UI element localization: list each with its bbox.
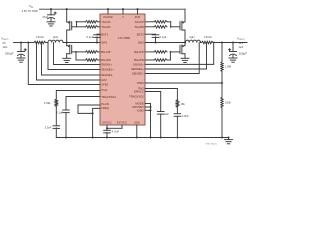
- capacitor CVCC 4.7uF: [104, 130, 120, 138]
- svg-text:RUN: RUN: [135, 16, 141, 19]
- resistor RBG2DN gate: [145, 59, 167, 62]
- wire ITH2: [145, 89, 177, 100]
- svg-text:SNSA2+: SNSA2+: [133, 63, 144, 67]
- svg-text:SW2: SW2: [138, 41, 145, 45]
- svg-text:1µF: 1µF: [164, 112, 169, 116]
- wire SW1 node: [63, 42, 100, 44]
- node VOUT2 dots: [221, 41, 234, 43]
- svg-text:LTC7890: LTC7890: [118, 36, 130, 40]
- node VOUT1 dots: [20, 41, 29, 43]
- node VOUT2 label: [237, 37, 245, 50]
- wire sense loop R2b: [145, 43, 207, 70]
- wire PLLIN route: [78, 105, 100, 113]
- wire sense loop R2c: [145, 43, 199, 74]
- svg-text:15k: 15k: [180, 102, 185, 106]
- svg-text:VIN: VIN: [29, 4, 34, 9]
- capacitor CDRV 1uF: [157, 112, 169, 138]
- wire SW2 node: [145, 42, 186, 44]
- capacitor CITH2 3.3nF: [174, 114, 189, 138]
- svg-text:SNSA1+: SNSA1+: [101, 63, 112, 67]
- svg-text:ILIM: ILIM: [101, 78, 107, 82]
- wire sense loop L1a: [36, 42, 100, 65]
- wire VFB2 route: [145, 82, 222, 84]
- node VIN input label: [22, 4, 39, 13]
- wire sense loop R2a: [145, 42, 215, 65]
- wire VIN top rail: [40, 8, 186, 10]
- svg-text:FREQ: FREQ: [101, 106, 110, 110]
- wire VFB1 route: [28, 43, 100, 85]
- note schematic id: [205, 143, 217, 146]
- U1 right pin labels: [129, 20, 144, 113]
- svg-text:4.53k: 4.53k: [44, 101, 51, 105]
- svg-text:4.5V TO 150V: 4.5V TO 150V: [22, 9, 39, 13]
- wire M2 source to ground: [66, 54, 68, 59]
- resistor RTG1UP gate: [86, 21, 101, 24]
- svg-text:7890 TA01a: 7890 TA01a: [205, 143, 217, 146]
- svg-text:100µF: 100µF: [239, 51, 248, 55]
- svg-text:2µH: 2µH: [53, 35, 58, 39]
- U1 left pin labels: [101, 20, 116, 110]
- svg-text:BST2: BST2: [137, 32, 144, 36]
- resistor RS1 1.5mOhm: [28, 35, 48, 44]
- svg-text:DRVCC: DRVCC: [134, 90, 144, 94]
- node SW1 dots: [66, 41, 98, 43]
- node SW2 dots: [154, 41, 186, 43]
- svg-text:VFB1: VFB1: [101, 83, 108, 87]
- svg-text:PGOOD: PGOOD: [103, 16, 113, 19]
- svg-text:5V: 5V: [3, 41, 6, 45]
- svg-text:SENSE2-: SENSE2-: [132, 72, 144, 76]
- svg-text:BG1UP: BG1UP: [101, 50, 111, 54]
- node bottom rail dots: [65, 136, 223, 138]
- wire DRVCC cap route: [145, 92, 161, 112]
- ground under M2: [63, 58, 71, 62]
- U1 bottom pin labels: [102, 122, 139, 125]
- svg-text:SENSE1+: SENSE1+: [101, 68, 114, 72]
- svg-text:12A: 12A: [3, 45, 8, 49]
- wire sense loop L1c: [42, 43, 101, 76]
- svg-text:1.5mΩ: 1.5mΩ: [203, 35, 211, 39]
- resistor RBG2UP gate: [145, 51, 167, 54]
- svg-text:4.7µF: 4.7µF: [112, 130, 120, 134]
- svg-text:VOUT2: VOUT2: [237, 37, 245, 42]
- svg-text:BG2UP: BG2UP: [134, 50, 144, 54]
- svg-text:GND: GND: [134, 122, 140, 125]
- svg-text:TRACKSS1: TRACKSS1: [101, 95, 116, 99]
- svg-text:330µF: 330µF: [5, 51, 14, 55]
- U1 top pin labels: [103, 16, 140, 19]
- svg-text:SENSE1-: SENSE1-: [101, 73, 113, 77]
- op-amp U1 LTC7890 controller IC body: [100, 14, 145, 125]
- ground at rail end: [225, 136, 233, 143]
- wire sense loop L1d: [37, 43, 101, 81]
- svg-text:TG1UP: TG1UP: [101, 20, 110, 24]
- wire RITH1 to CITH1: [55, 107, 57, 126]
- resistor RBG1DN gate: [86, 59, 101, 62]
- node VOUT1 label: [1, 37, 9, 50]
- resistor RTG1DN gate: [86, 26, 101, 29]
- svg-text:EXTVCC: EXTVCC: [117, 122, 127, 125]
- wire M1 gate split: [72, 21, 86, 27]
- svg-text:100k: 100k: [225, 101, 231, 105]
- wire M1 source to SW1: [66, 30, 68, 43]
- resistor RTG2DN gate: [145, 26, 167, 29]
- svg-text:0.1µF: 0.1µF: [87, 35, 94, 39]
- svg-text:47µF: 47µF: [42, 15, 49, 19]
- wire MODE DRVSET stubs: [145, 104, 152, 138]
- svg-text:VOUT1: VOUT1: [1, 37, 9, 42]
- transistor M2 bottom NFET left: [67, 43, 72, 54]
- transistor M4 bottom NFET right: [180, 43, 185, 54]
- ground under COUT1: [17, 58, 25, 62]
- svg-text:TG2DN: TG2DN: [134, 25, 143, 29]
- capacitor CB1 0.1uF boost: [87, 34, 101, 42]
- inductor L2 2uH: [186, 35, 201, 42]
- ground under M4: [181, 58, 189, 62]
- svg-text:BG1DN: BG1DN: [101, 58, 111, 62]
- resistor RITH2 15k: [176, 100, 185, 107]
- svg-text:BST1: BST1: [101, 32, 108, 36]
- wire M4 gate split: [167, 51, 180, 60]
- wire ITH1: [56, 91, 100, 100]
- svg-text:3.3nF: 3.3nF: [45, 126, 52, 130]
- node VFB2 dot: [221, 82, 223, 84]
- wire INTVCC EXTVCC: [106, 125, 122, 130]
- capacitor CSS1 0.1uF: [56, 110, 69, 138]
- wire bottom ground rail: [56, 137, 228, 139]
- ground under CIN: [47, 22, 55, 26]
- svg-text:0.1µF: 0.1µF: [56, 110, 63, 114]
- svg-text:2µH: 2µH: [190, 35, 195, 39]
- svg-text:INTVCC: INTVCC: [102, 122, 112, 125]
- wire sense loop L1b: [48, 43, 100, 70]
- capacitor CITH1 3.3nF: [45, 126, 60, 138]
- svg-text:TRACKSS2: TRACKSS2: [129, 95, 144, 99]
- svg-text:TG2UP: TG2UP: [134, 20, 143, 24]
- svg-text:SENSE2+: SENSE2+: [131, 67, 144, 71]
- svg-text:12V: 12V: [239, 41, 244, 45]
- inductor L1 2uH: [48, 35, 63, 42]
- svg-text:3.3nF: 3.3nF: [182, 114, 189, 118]
- resistor RTG2UP gate: [145, 21, 167, 24]
- svg-text:1.5mΩ: 1.5mΩ: [35, 35, 43, 39]
- svg-text:TG1DN: TG1DN: [101, 25, 110, 29]
- wire FREQ route: [93, 108, 100, 137]
- wire TRACKSS1: [66, 97, 100, 111]
- capacitor COUT2 100uF: [229, 43, 248, 59]
- wire RITH2 to CITH2: [176, 107, 178, 114]
- capacitor CB2 0.1uF boost: [145, 34, 167, 42]
- svg-text:SW1: SW1: [101, 41, 108, 45]
- transistor M1 top NFET left: [67, 9, 72, 30]
- svg-text:BG2DN: BG2DN: [134, 58, 144, 62]
- node junction dots on VIN rail: [50, 8, 139, 10]
- resistor RFB2A 1.8M: [221, 43, 232, 84]
- svg-text:0.1µF: 0.1µF: [160, 35, 167, 39]
- capacitor COUT1 330uF: [5, 43, 26, 59]
- svg-text:12A: 12A: [239, 45, 244, 49]
- node FREQ junction dot: [92, 112, 94, 114]
- wire VOUT1: [14, 42, 29, 44]
- svg-text:ITH1: ITH1: [101, 88, 108, 92]
- ground under COUT2: [229, 58, 237, 62]
- resistor RBG1UP gate: [86, 51, 101, 54]
- wire M3 gate split: [167, 22, 180, 28]
- wire IC top supply stubs: [108, 9, 138, 14]
- wire GND pin stub: [136, 125, 138, 138]
- svg-text:VFB2: VFB2: [137, 81, 144, 85]
- capacitor CIN 47uF: [42, 9, 56, 22]
- resistor RFB2B 100k: [221, 83, 232, 138]
- wire M4 source to ground: [184, 54, 186, 59]
- resistor RS2 1.5mOhm: [201, 35, 248, 44]
- transistor M3 top NFET right: [180, 9, 185, 30]
- wire M2 gate split: [72, 51, 86, 60]
- resistor RITH1 4.53k: [44, 99, 58, 107]
- svg-text:ILIM2: ILIM2: [137, 108, 144, 112]
- svg-text:1.8M: 1.8M: [225, 65, 232, 69]
- wire M3 source to SW2: [184, 30, 186, 43]
